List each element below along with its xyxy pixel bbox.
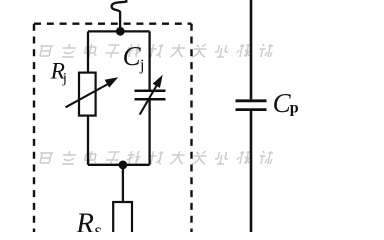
wire Cp bottom lead xyxy=(250,111,253,232)
wire Cp top lead xyxy=(250,0,253,99)
capacitor Cp xyxy=(236,101,267,110)
wire Cj bottom lead xyxy=(148,100,150,164)
node bottom junction xyxy=(119,161,128,170)
svg-text:C: C xyxy=(273,88,292,118)
watermark row 1 xyxy=(38,44,274,58)
svg-text:p: p xyxy=(290,100,299,117)
wire Rs top lead xyxy=(122,165,124,202)
svg-text:s: s xyxy=(94,221,101,233)
node top junction xyxy=(116,27,125,36)
svg-text:j: j xyxy=(62,71,67,87)
wire Rj bottom lead xyxy=(87,116,89,165)
capacitor Cj (variable) xyxy=(135,75,166,115)
resistor Rj (variable) xyxy=(66,73,119,116)
resistor Rs xyxy=(113,202,132,238)
dashed enclosure box xyxy=(33,24,35,236)
wire top rail xyxy=(88,30,150,32)
wire Cj top lead xyxy=(148,31,150,90)
watermark row 2 xyxy=(38,151,274,165)
wire bottom rail xyxy=(88,164,150,166)
wire Rj top lead xyxy=(87,31,89,73)
svg-text:R: R xyxy=(75,208,94,233)
svg-text:C: C xyxy=(123,41,142,71)
wire top curved lead xyxy=(112,0,127,31)
svg-text:j: j xyxy=(139,57,144,74)
